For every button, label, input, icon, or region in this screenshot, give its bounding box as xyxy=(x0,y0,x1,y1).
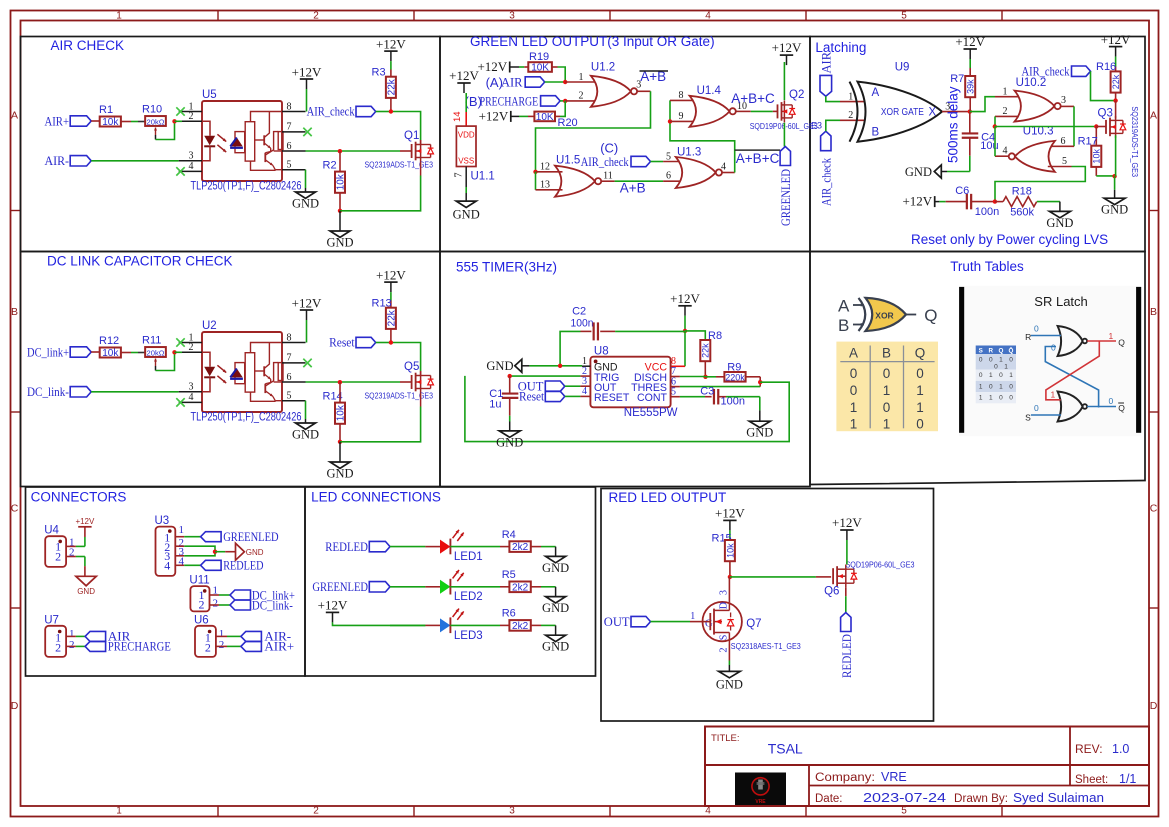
junction node C6/R18 xyxy=(993,199,997,203)
wire LED3 to R6 xyxy=(450,624,509,626)
svg-text:1: 1 xyxy=(1051,390,1056,400)
svg-text:7: 7 xyxy=(454,173,465,178)
net label A+B inverted (overline) xyxy=(640,69,669,84)
wire flag to drain node xyxy=(376,112,421,145)
title block rev column line xyxy=(1069,727,1071,786)
svg-text:6: 6 xyxy=(287,141,292,152)
svg-text:5: 5 xyxy=(671,386,676,397)
svg-text:REDLED: REDLED xyxy=(223,558,263,573)
svg-text:14: 14 xyxy=(452,111,463,122)
U1.4 output pin 10 wire to Q2 gate xyxy=(736,101,778,112)
wire gate node to Q6 xyxy=(730,576,831,578)
power +12V rotated for R20 xyxy=(479,108,535,123)
svg-text:20kΩ: 20kΩ xyxy=(147,349,165,358)
svg-text:6: 6 xyxy=(666,171,671,182)
svg-text:1: 1 xyxy=(883,417,891,432)
wire source return xyxy=(340,407,421,442)
ground symbol sideways pin 1 xyxy=(486,359,521,373)
svg-text:22k: 22k xyxy=(1111,74,1121,89)
svg-text:2: 2 xyxy=(313,11,319,22)
U1.4 pin 8 xyxy=(670,90,697,101)
net flag DC_link- connector xyxy=(230,597,293,612)
U5 pin 4 no-connect xyxy=(176,161,202,175)
svg-text:10u: 10u xyxy=(980,140,998,152)
svg-text:7: 7 xyxy=(287,353,292,364)
svg-text:1: 1 xyxy=(916,383,924,398)
wire U3 pin4 to REDLED xyxy=(175,564,200,566)
svg-text:Date:: Date: xyxy=(815,793,843,805)
svg-text:R1: R1 xyxy=(99,104,113,116)
junction node R9/THRES xyxy=(758,377,762,387)
svg-text:REDLED: REDLED xyxy=(325,539,368,554)
svg-text:B: B xyxy=(872,127,880,139)
net flag REDLED xyxy=(325,539,390,554)
svg-text:S: S xyxy=(979,347,983,354)
connector U6 xyxy=(194,614,224,657)
sr latch cross wire blue xyxy=(1045,343,1098,408)
sr latch R input wire xyxy=(1025,324,1061,342)
svg-text:0: 0 xyxy=(979,372,983,379)
svg-text:2: 2 xyxy=(199,598,205,612)
sr latch image right bar xyxy=(1136,287,1141,433)
AIR CHECK block border xyxy=(21,37,441,252)
wire Q7 source to GND xyxy=(719,644,730,671)
svg-text:10K: 10K xyxy=(536,112,554,123)
svg-text:GND: GND xyxy=(292,197,319,211)
svg-text:4: 4 xyxy=(721,162,726,173)
svg-text:R13: R13 xyxy=(372,298,392,310)
svg-text:1/1: 1/1 xyxy=(1119,772,1136,786)
svg-text:0: 0 xyxy=(999,372,1003,379)
wire Q6 drain to REDLED xyxy=(845,588,847,613)
svg-text:U7: U7 xyxy=(44,614,59,626)
U10.2 pin 2 wire xyxy=(995,106,1022,127)
svg-text:R12: R12 xyxy=(99,335,119,347)
svg-text:Q2: Q2 xyxy=(789,89,804,101)
junction node pin9 xyxy=(668,119,672,123)
capacitor C6 100n xyxy=(946,185,1000,218)
svg-text:AIR-: AIR- xyxy=(45,153,70,168)
ground symbol C3 xyxy=(749,421,770,427)
svg-text:2k2: 2k2 xyxy=(512,542,529,553)
ground symbol below xyxy=(326,442,353,481)
svg-text:3: 3 xyxy=(719,590,730,595)
svg-text:10k: 10k xyxy=(725,543,735,558)
transistor Q7 SQ2318AES-T1_GE3 xyxy=(703,602,802,651)
net flag AIR connector xyxy=(85,629,131,644)
svg-text:SQ2318AES-T1_GE3: SQ2318AES-T1_GE3 xyxy=(731,641,801,651)
svg-text:0: 0 xyxy=(916,366,924,381)
wire AIR- to U5 pin 3 xyxy=(91,151,202,162)
svg-text:500ms delay: 500ms delay xyxy=(946,86,961,163)
net flag GREENLED connector xyxy=(201,529,279,544)
svg-text:7: 7 xyxy=(287,122,292,133)
svg-text:4: 4 xyxy=(189,161,194,172)
connector U11 xyxy=(189,575,218,612)
junction node Q3 gate/R17 xyxy=(1094,124,1098,128)
junction node R15/Q7 drain xyxy=(728,575,732,579)
power pins box U1.1 VDD/VSS xyxy=(456,126,494,182)
svg-text:+12V: +12V xyxy=(1101,32,1131,47)
svg-text:Q5: Q5 xyxy=(404,361,419,373)
capacitor C3 100n xyxy=(700,385,745,407)
svg-text:U3: U3 xyxy=(155,515,170,527)
svg-text:SQ2319ADS-T1_GE3: SQ2319ADS-T1_GE3 xyxy=(365,390,434,400)
svg-text:GND: GND xyxy=(453,208,480,222)
transistor Q6 SQD19P06-60L_GE3 xyxy=(824,559,915,597)
svg-text:0: 0 xyxy=(916,417,924,432)
svg-text:22k: 22k xyxy=(701,343,711,358)
junction node source/R bottom xyxy=(338,209,342,213)
wire C3 to GND xyxy=(726,397,760,421)
svg-text:Sheet:: Sheet: xyxy=(1075,774,1108,786)
svg-text:C6: C6 xyxy=(955,185,969,197)
U5 pin 7 no-connect xyxy=(282,122,312,136)
wire U11 pin1 xyxy=(210,594,231,596)
U1.4 pin 9 xyxy=(670,111,697,122)
svg-text:R17: R17 xyxy=(1078,136,1098,148)
svg-text:+12V: +12V xyxy=(902,194,932,209)
svg-text:22k: 22k xyxy=(386,78,397,95)
wire LED2 to R5 xyxy=(450,586,509,588)
svg-text:RED LED OUTPUT: RED LED OUTPUT xyxy=(609,490,727,505)
Truth Tables block border xyxy=(810,252,1145,485)
ground symbol LED2 xyxy=(546,597,566,603)
net flag REDLED connector xyxy=(201,558,264,573)
svg-text:0: 0 xyxy=(1109,396,1114,406)
svg-text:5: 5 xyxy=(666,151,671,162)
svg-text:0: 0 xyxy=(850,366,858,381)
net flag PRECHARGE connector xyxy=(85,639,171,654)
svg-text:PRECHARGE: PRECHARGE xyxy=(108,639,171,654)
svg-text:PRECHARGE: PRECHARGE xyxy=(480,95,539,109)
svg-text:8: 8 xyxy=(287,101,292,112)
junction node B xyxy=(563,99,567,103)
svg-text:GND: GND xyxy=(542,561,569,575)
U1.5 output pin 11 wire A+B xyxy=(601,171,663,182)
svg-text:U6: U6 xyxy=(194,614,209,626)
svg-text:R16: R16 xyxy=(1096,61,1116,73)
ground symbol LED3 xyxy=(546,635,566,641)
svg-text:+12V: +12V xyxy=(832,515,862,530)
svg-text:TLP250(TP1,F)_C2802426: TLP250(TP1,F)_C2802426 xyxy=(191,180,302,192)
ground symbol Q3 xyxy=(1104,198,1125,204)
svg-text:AIR_check: AIR_check xyxy=(581,155,630,169)
svg-text:(C): (C) xyxy=(600,140,618,155)
junction node C1/TRIG xyxy=(508,374,512,378)
net flag AIR_check (vertical) xyxy=(820,131,834,206)
svg-text:4: 4 xyxy=(582,386,587,397)
svg-text:2: 2 xyxy=(189,342,194,353)
power +12V symbol xyxy=(300,309,313,311)
svg-text:5: 5 xyxy=(901,805,907,816)
svg-text:R9: R9 xyxy=(727,361,741,373)
wire REDLED to LED1 xyxy=(390,546,440,548)
svg-text:AIR_check: AIR_check xyxy=(307,104,355,119)
potentiometer R11 20kOhm xyxy=(142,334,166,366)
svg-text:1: 1 xyxy=(979,383,983,390)
U2 pin 5 wire to GND xyxy=(282,391,306,424)
U8 pin 5 CONT wire xyxy=(671,386,705,397)
svg-text:+12V: +12V xyxy=(772,40,802,55)
resistor R5 2k2 xyxy=(502,569,531,593)
svg-text:2: 2 xyxy=(848,110,853,121)
svg-text:E3: E3 xyxy=(811,121,822,131)
or-gate U1.2 xyxy=(591,61,637,107)
wire U3 pin2 to GND node xyxy=(175,546,215,552)
U5 pin 1 no-connect xyxy=(176,101,202,115)
junction node at R10 output xyxy=(172,119,176,123)
wire Q2 drain to GREENLED xyxy=(783,123,785,147)
U2 pin 6 wire to gate node xyxy=(282,372,412,383)
svg-text:0: 0 xyxy=(1009,357,1013,364)
ground symbol below xyxy=(326,211,353,250)
resistor R6 2k2 xyxy=(502,608,531,632)
svg-text:Syed Sulaiman: Syed Sulaiman xyxy=(1013,791,1104,805)
junction node VCC xyxy=(683,329,687,333)
wire C2 left to GND net xyxy=(560,331,580,365)
svg-text:C: C xyxy=(11,503,19,515)
junction node X/R7 xyxy=(968,109,972,113)
svg-text:C2: C2 xyxy=(572,306,586,318)
wire R11 wiper feedback xyxy=(156,352,175,370)
svg-text:U9: U9 xyxy=(895,62,910,74)
LED CONNECTIONS block border xyxy=(305,487,596,676)
wire C4 to GND xyxy=(941,156,970,172)
U8 pin 6 THRES wire xyxy=(671,376,761,387)
U5 pin 2 xyxy=(175,111,203,122)
svg-text:+12V: +12V xyxy=(292,65,322,80)
wire U4 pin2 to GND xyxy=(66,557,85,577)
svg-text:LED CONNECTIONS: LED CONNECTIONS xyxy=(311,490,441,505)
svg-text:10K: 10K xyxy=(531,63,549,74)
U5 pin 6 wire to gate node xyxy=(282,141,412,152)
svg-text:G: G xyxy=(705,619,713,630)
frame row ticks xyxy=(11,211,1160,609)
svg-text:0: 0 xyxy=(1009,383,1013,390)
svg-text:0: 0 xyxy=(1051,343,1056,353)
svg-text:REV:: REV: xyxy=(1075,742,1103,756)
svg-text:B: B xyxy=(882,346,891,361)
svg-text:10k: 10k xyxy=(102,117,119,128)
svg-text:1: 1 xyxy=(850,417,858,432)
svg-text:REDLED: REDLED xyxy=(839,634,854,678)
svg-text:+12V: +12V xyxy=(715,505,745,520)
resistor R4 2k2 xyxy=(502,529,531,553)
wire R18 to GND xyxy=(1037,202,1060,212)
svg-text:22k: 22k xyxy=(386,309,397,326)
svg-text:SQ2319ADS-T1_GE3: SQ2319ADS-T1_GE3 xyxy=(365,159,434,169)
svg-text:5: 5 xyxy=(287,391,292,402)
power +12V for R15 xyxy=(715,505,745,539)
U9 output X wire xyxy=(929,101,970,118)
net flag AIR+ connector xyxy=(241,639,294,654)
svg-text:3: 3 xyxy=(509,805,515,816)
svg-text:4: 4 xyxy=(189,392,194,403)
svg-text:+12V: +12V xyxy=(955,34,985,49)
svg-text:AIR: AIR xyxy=(820,51,834,73)
svg-text:1: 1 xyxy=(1109,331,1114,341)
ground symbol C1 xyxy=(499,431,520,437)
svg-text:AIR+: AIR+ xyxy=(264,639,294,654)
wire OUT to Q7 gate xyxy=(651,611,703,622)
svg-text:A: A xyxy=(1150,110,1157,122)
wire R10 wiper feedback xyxy=(156,121,175,139)
xor-gate U9 xyxy=(850,62,943,142)
svg-text:GND: GND xyxy=(326,236,353,250)
net flag AIR_check right xyxy=(1022,65,1091,79)
svg-text:3: 3 xyxy=(1061,95,1066,106)
power +12V for LED3 xyxy=(318,597,426,625)
svg-text:GND: GND xyxy=(77,587,95,596)
svg-text:6: 6 xyxy=(1061,136,1066,147)
led LED2 xyxy=(440,570,483,603)
wire AIR_check to U9 pin 2 xyxy=(826,110,864,131)
wire Q3 drain to GND xyxy=(1115,135,1116,198)
svg-text:VRE: VRE xyxy=(755,799,766,805)
ground symbol maroon U4 xyxy=(76,576,96,596)
ground symbol LED1 xyxy=(546,556,566,562)
U2 pin 2 xyxy=(175,342,203,353)
resistor R2 10k xyxy=(323,151,347,211)
wire R1 to R10 xyxy=(121,121,145,123)
svg-text:Q: Q xyxy=(1118,338,1125,348)
svg-text:100n: 100n xyxy=(571,318,594,330)
resistor R16 22k xyxy=(1096,61,1121,101)
resistor R18 560k (zigzag) xyxy=(995,185,1037,218)
U1.2 output pin 3 wire xyxy=(536,80,651,172)
title block sheet row line xyxy=(809,785,1149,787)
svg-text:RESET: RESET xyxy=(594,392,630,404)
wire X node to U10.2 pin1 xyxy=(970,97,995,112)
svg-text:+12V: +12V xyxy=(75,517,95,526)
svg-text:GND: GND xyxy=(496,435,523,449)
svg-text:1: 1 xyxy=(999,383,1003,390)
title block row line xyxy=(705,764,1149,766)
power +12V for R7 xyxy=(955,34,985,76)
wire R19 to pin1 node xyxy=(552,67,565,82)
svg-text:B: B xyxy=(1150,306,1157,318)
svg-text:R11: R11 xyxy=(142,334,161,346)
svg-text:+12V: +12V xyxy=(292,296,322,311)
xor truth table xyxy=(836,342,938,432)
svg-text:U1.3: U1.3 xyxy=(677,146,701,158)
svg-text:A: A xyxy=(11,110,18,122)
svg-text:6: 6 xyxy=(287,372,292,383)
power +12V for R16 xyxy=(1101,32,1131,73)
svg-text:GND: GND xyxy=(542,640,569,654)
svg-text:CONNECTORS: CONNECTORS xyxy=(31,489,127,504)
svg-text:5: 5 xyxy=(901,11,907,22)
wire U3 pin1 to GREENLED xyxy=(175,536,200,538)
svg-text:3: 3 xyxy=(189,151,194,162)
svg-text:SR Latch: SR Latch xyxy=(1034,294,1087,309)
ground symbol at pin 5 xyxy=(296,192,316,198)
wire source return xyxy=(340,176,421,211)
resistor R20 10K xyxy=(534,112,577,129)
net flag Reset 555 xyxy=(519,386,590,404)
svg-text:DC_link-: DC_link- xyxy=(252,597,293,612)
svg-text:1: 1 xyxy=(979,395,983,402)
capacitor C1 1u xyxy=(489,376,518,431)
svg-text:U8: U8 xyxy=(594,346,609,358)
resistor R14 10k xyxy=(323,382,347,442)
resistor R7 39k xyxy=(950,73,975,112)
svg-text:1.0: 1.0 xyxy=(1112,742,1129,756)
U1.2 pin 1 xyxy=(565,72,598,83)
svg-text:Reset only by Power cycling LV: Reset only by Power cycling LVS xyxy=(911,232,1108,247)
svg-text:Drawn By:: Drawn By: xyxy=(954,793,1008,805)
svg-text:R: R xyxy=(989,347,994,354)
svg-text:S: S xyxy=(719,635,730,641)
svg-text:GND: GND xyxy=(746,426,773,440)
or-gate U1.5 xyxy=(555,155,601,197)
svg-text:0: 0 xyxy=(989,357,993,364)
connector U7 xyxy=(44,614,74,657)
svg-text:3: 3 xyxy=(509,11,515,22)
wire feedback to bottom bus xyxy=(465,376,789,442)
svg-text:GND: GND xyxy=(542,601,569,615)
svg-text:560k: 560k xyxy=(1010,207,1034,219)
U2 pin 8 wire to +12V xyxy=(282,320,307,343)
svg-text:2: 2 xyxy=(189,111,194,122)
svg-text:Reset: Reset xyxy=(519,390,545,404)
power +12V for Q2 xyxy=(772,40,802,100)
svg-text:AIR+: AIR+ xyxy=(45,113,70,128)
svg-text:+12V: +12V xyxy=(449,68,479,83)
svg-text:0: 0 xyxy=(850,383,858,398)
U2 pin 1 no-connect xyxy=(176,332,202,346)
net flag GREENLED xyxy=(778,147,793,227)
wire DC_link+ to R12 xyxy=(91,351,100,353)
svg-text:0: 0 xyxy=(1034,403,1039,413)
svg-text:Q: Q xyxy=(924,306,937,325)
company logo VRE xyxy=(735,773,786,806)
svg-text:Q: Q xyxy=(915,346,926,361)
svg-text:3: 3 xyxy=(189,382,194,393)
svg-text:NE555PW: NE555PW xyxy=(624,407,678,419)
svg-text:SQD19P06-60L_GE3: SQD19P06-60L_GE3 xyxy=(846,559,915,569)
junction node source/R bottom xyxy=(338,440,342,444)
resistor R17 10k xyxy=(1078,127,1115,176)
svg-text:U10.2: U10.2 xyxy=(1016,77,1047,89)
svg-text:B: B xyxy=(11,306,18,318)
junction node C2/GND xyxy=(558,364,562,368)
sr latch cross wire red xyxy=(1046,341,1099,400)
svg-text:2: 2 xyxy=(213,598,219,610)
junction node at flag xyxy=(389,340,393,344)
resistor R1 10k xyxy=(99,104,121,128)
svg-text:A+B+C: A+B+C xyxy=(731,91,775,106)
U1.2 pin 2 xyxy=(565,91,598,102)
svg-text:12: 12 xyxy=(540,161,550,172)
svg-text:DC LINK CAPACITOR CHECK: DC LINK CAPACITOR CHECK xyxy=(47,254,233,269)
power +12V for Q6 xyxy=(832,515,862,565)
svg-text:1: 1 xyxy=(1004,363,1008,370)
svg-text:Q6: Q6 xyxy=(824,586,839,598)
net flag DC_link- xyxy=(27,384,91,399)
U8 pin 7 DISCH wire xyxy=(671,366,706,377)
net flag AIR input A xyxy=(486,75,566,90)
svg-text:11: 11 xyxy=(603,171,613,182)
svg-text:GREENLED: GREENLED xyxy=(778,169,793,226)
svg-text:Q: Q xyxy=(1118,403,1125,413)
svg-text:A: A xyxy=(849,346,858,361)
svg-text:+12V: +12V xyxy=(318,597,348,612)
svg-text:AIR_check: AIR_check xyxy=(820,157,834,206)
svg-text:AIR CHECK: AIR CHECK xyxy=(51,38,125,53)
U8 pin 2 TRIG wire xyxy=(510,366,591,377)
